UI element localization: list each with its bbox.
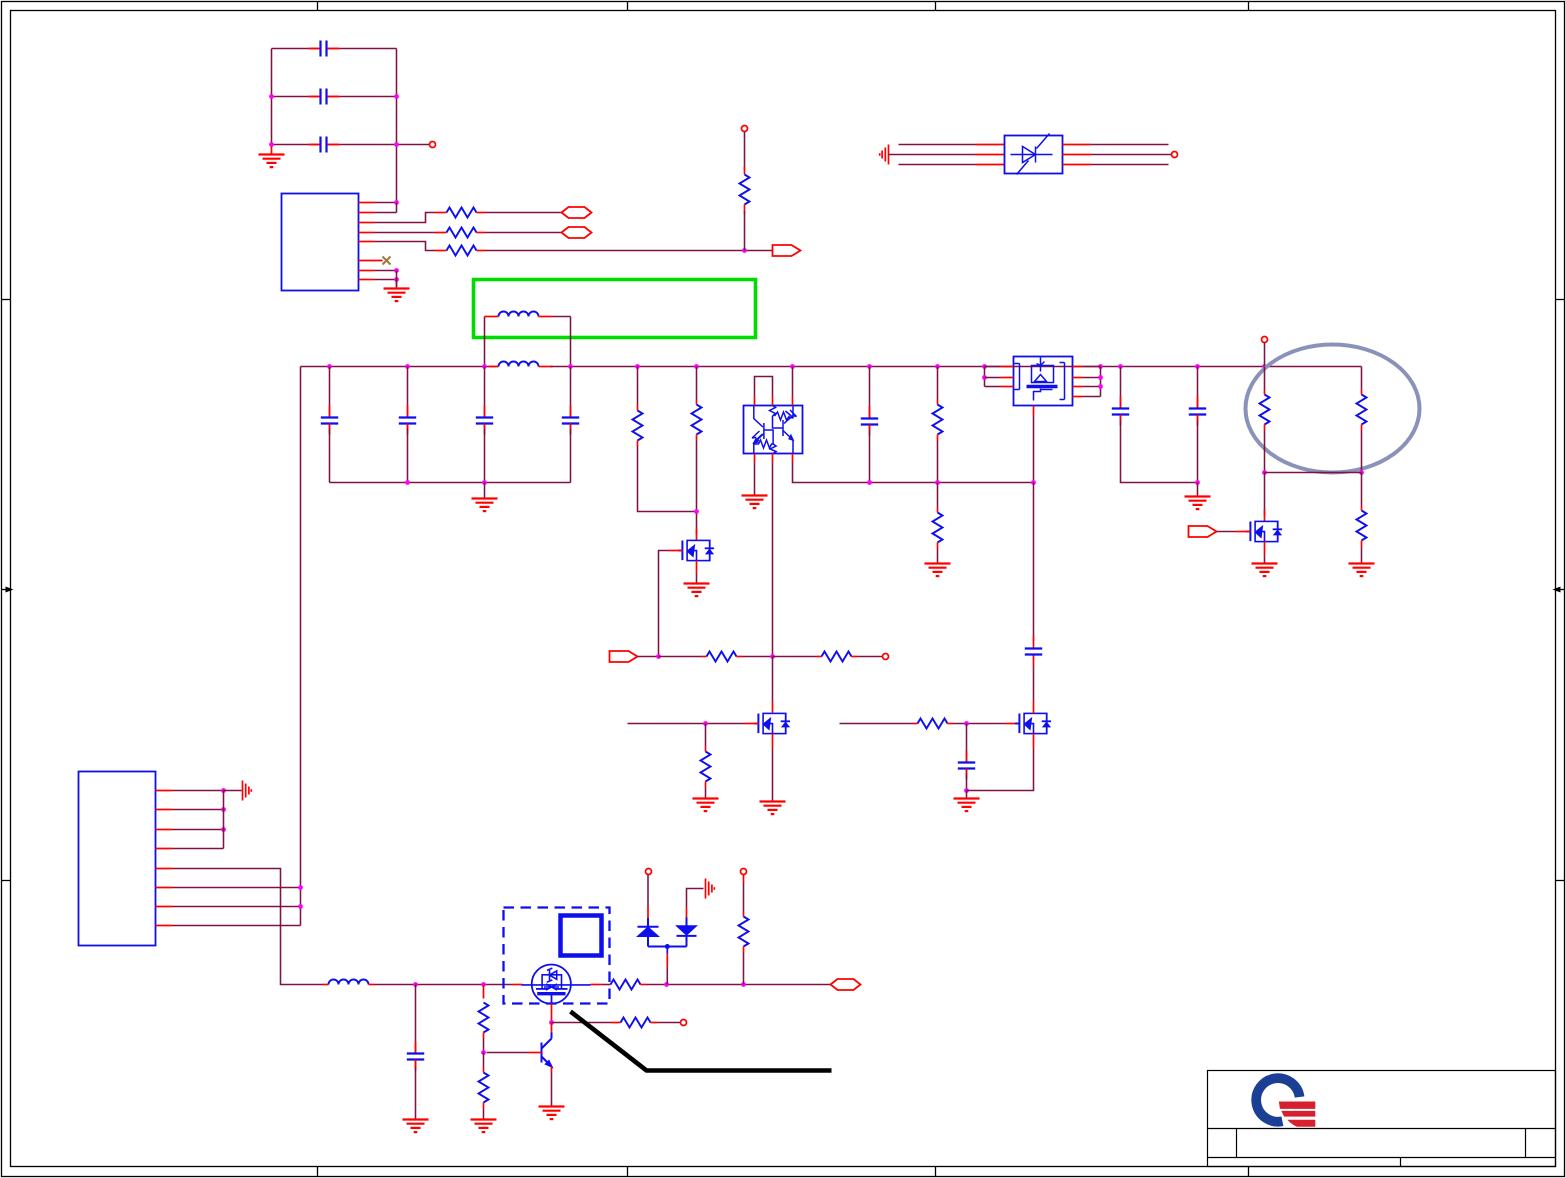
capacitor C10: [1197, 367, 1199, 405]
J1 pin 4: [156, 848, 173, 850]
capacitor C6: [484, 367, 486, 415]
triac U2 box: [1005, 136, 1063, 174]
right centre arrow: [1553, 587, 1565, 593]
resistor R5: [637, 367, 639, 406]
Q4 source to ground: [1264, 542, 1266, 556]
title block frame: [1208, 1071, 1556, 1167]
wire cap row 1: [272, 48, 312, 50]
ground R8: [925, 564, 951, 577]
resistor R18: [611, 980, 641, 990]
capacitor C4: [329, 367, 331, 415]
U3 internals: [752, 406, 797, 454]
wire cap row 2: [272, 96, 312, 98]
off-page connector hexagon 1: [562, 207, 592, 218]
diode D2: [648, 918, 697, 947]
capacitor C7: [570, 367, 572, 415]
off-page connector hexagon 2: [562, 227, 592, 238]
resistor R12: [707, 652, 737, 662]
capacitor C11: [1025, 637, 1042, 666]
circle mosfet M5: [532, 965, 571, 1004]
U1 pin 3: [359, 222, 375, 224]
left border ticks: [2, 299, 11, 301]
resistor R1: [435, 212, 447, 214]
wire connector to node: [638, 656, 659, 658]
mosfet Q2: [754, 713, 790, 733]
resistor R17: [483, 1053, 485, 1068]
U4 internal symbol: [1027, 358, 1058, 401]
blue ellipse annotation: [1246, 345, 1420, 473]
junction dots cap bank: [269, 94, 274, 99]
ground Q1: [684, 584, 710, 597]
Q1 gate wire: [669, 550, 683, 552]
U4 right pins: [1073, 366, 1083, 368]
wire opto leg to Q2: [772, 657, 774, 702]
ground R14: [693, 799, 719, 812]
wire to chassis ground: [224, 790, 242, 792]
capacitor C12 on Q3 gate: [966, 724, 968, 759]
optocoupler U3 box: [744, 406, 803, 454]
triac U2 symbol: [1011, 134, 1053, 175]
resistor R4: [740, 175, 750, 205]
resistor R10: [1361, 367, 1363, 390]
U1 pin 1: [359, 202, 375, 204]
U1 pin 7: [359, 270, 375, 272]
mosfet Q4: [1246, 521, 1282, 541]
ground C9 C10 rail: [1197, 483, 1199, 496]
Q4 gate connector arrow: [1189, 526, 1217, 537]
top border ticks: [317, 2, 319, 11]
U4 bottom pin wire: [1033, 406, 1035, 416]
Q3 gate wire: [840, 723, 913, 725]
J1 pin 6: [156, 887, 173, 889]
capacitor C8: [869, 367, 871, 416]
capacitor C5: [407, 367, 409, 415]
resistor R14 on Q2 gate: [705, 724, 707, 747]
wire triac right bottom: [1063, 164, 1091, 166]
terminal open circle source row: [681, 1020, 687, 1026]
chassis ground J1: [243, 781, 252, 801]
dual-fet block U4: [1014, 357, 1073, 406]
off-page connector arrow mid row: [610, 651, 638, 662]
ground R11: [1349, 564, 1375, 577]
resistor R9: [1264, 367, 1266, 390]
inductor L2 (on bus): [489, 366, 499, 368]
cap bottom rail: [330, 482, 571, 484]
U4 bracket pins: [1015, 363, 1065, 400]
resistor R19: [741, 869, 747, 875]
green highlight box: [474, 280, 756, 338]
wire down from terminal: [744, 132, 746, 170]
mosfet Q1: [696, 529, 698, 541]
resistor R8 below rail: [937, 483, 939, 508]
wire R6 down: [696, 441, 698, 535]
wire to BJT collector: [551, 1023, 553, 1033]
wire triac left bottom: [899, 164, 976, 166]
J1 pin 5: [156, 868, 173, 870]
dashed module box: [504, 908, 610, 1004]
left centre arrow: [2, 587, 14, 593]
black annotation polyline: [571, 1012, 832, 1071]
resistor R2: [435, 232, 447, 234]
capacitor C2: [309, 89, 339, 105]
M5 source down: [551, 1004, 553, 1023]
thick blue square: [561, 916, 602, 956]
ground Q2: [760, 802, 786, 815]
wire to connector 1: [486, 212, 562, 214]
wire C12 to Q3 source: [1033, 734, 1035, 749]
bus junction dots: [327, 364, 332, 369]
wire triac left top: [899, 144, 976, 146]
wire L1 right leg: [570, 317, 572, 367]
J1 pins 1-4 tie vertical: [223, 791, 225, 849]
main bus wire cont: [551, 366, 1362, 368]
Q2 source to ground: [772, 734, 774, 749]
terminal open circle top: [742, 126, 748, 132]
off-page connector arrow row y=250: [773, 245, 801, 256]
wire terminal to bus: [1264, 343, 1266, 367]
Q4 gate wire: [1217, 531, 1237, 533]
J1 pin 7: [156, 906, 173, 908]
ground U3: [742, 496, 768, 509]
Q1 source to ground: [696, 561, 698, 574]
U1 pin 8: [359, 279, 375, 281]
wire diodes to line: [666, 947, 668, 954]
wire R5 to junction: [638, 447, 697, 512]
main bus wire: [301, 366, 497, 368]
wire resistor to row: [744, 212, 746, 251]
resistor R15: [918, 719, 948, 729]
capacitor C9: [1120, 367, 1122, 405]
wire node to R12: [659, 656, 702, 658]
Q2 gate wire: [628, 723, 745, 725]
U3 bottom right pin to rail: [792, 454, 794, 463]
resistor R7: [937, 367, 939, 400]
Q5 emitter to ground: [551, 1067, 553, 1073]
bottom border ticks: [317, 1167, 319, 1177]
ground cap bank: [271, 147, 273, 154]
company logo: [1256, 1078, 1315, 1127]
capacitor C13: [415, 985, 417, 1045]
J1 pin 8: [156, 925, 173, 927]
wire source row right: [552, 1022, 611, 1024]
resistor R20: [621, 1018, 651, 1028]
ground U1: [384, 289, 410, 302]
wire to connector 2: [486, 232, 562, 234]
wire node to R13: [773, 656, 817, 658]
U3 bottom left pin to ground: [754, 454, 756, 463]
capacitor C1: [309, 41, 339, 57]
resistor R11: [1361, 473, 1363, 506]
Q3 drain from C11: [1033, 702, 1035, 714]
diode D1: [646, 869, 652, 875]
wire U4 down to C11: [1033, 483, 1035, 641]
transistor Q5: [542, 1033, 552, 1067]
chassis ground triac left: [880, 145, 889, 165]
resistor R13: [822, 652, 852, 662]
chassis ground diode: [706, 879, 715, 899]
connector J1: [79, 772, 156, 946]
mosfet Q3: [1015, 713, 1051, 733]
Q5 base wire: [529, 1052, 542, 1054]
wire R13 to terminal: [858, 656, 883, 658]
ground Q4: [1252, 564, 1278, 577]
terminal open circle above bus: [1262, 337, 1268, 343]
terminal open circle triac: [1172, 152, 1178, 158]
ground C13: [403, 1120, 429, 1133]
wire triac left mid: [889, 154, 976, 156]
wire L1 left leg: [484, 317, 486, 367]
IC U1: [282, 194, 359, 291]
wire triac right mid: [1063, 154, 1091, 156]
resistor R6: [696, 367, 698, 400]
terminal open circle row3: [430, 142, 436, 148]
wire pin7-8 to ground: [396, 271, 398, 287]
wire long row y=250: [486, 250, 745, 252]
J1 pin 3: [156, 829, 173, 831]
off-page connector hexagon bottom: [831, 979, 861, 990]
ground C12: [966, 791, 968, 798]
U1 pin 5: [359, 241, 375, 243]
U1 pin 2: [359, 212, 375, 214]
wire R9 down to Q4: [1264, 473, 1266, 516]
U1 pin 4: [359, 232, 375, 234]
ground Q5: [539, 1107, 565, 1120]
rail R9-R10: [1265, 472, 1362, 474]
wire cap row 3: [272, 144, 312, 146]
capacitor C3: [309, 137, 339, 153]
U3 bottom mid pin long wire: [772, 454, 774, 463]
resistor R16: [483, 985, 485, 999]
wire cap-bank left vertical: [271, 49, 273, 147]
ground R17: [471, 1120, 497, 1133]
ground cap rail: [484, 483, 486, 498]
wire R18 to hexagon: [647, 984, 831, 986]
U4 left pins tie: [984, 367, 986, 387]
wire triac right top: [1063, 144, 1091, 146]
right border ticks: [1556, 299, 1565, 301]
resistor R3: [435, 250, 447, 252]
wire cap-bank right vertical: [396, 49, 398, 203]
left long vertical from bus: [300, 367, 302, 926]
U3 top bridge wire pins 1-2: [754, 397, 756, 406]
inductor L3: [323, 984, 329, 986]
J1 pin 2: [156, 809, 173, 811]
terminal open circle mid row: [883, 654, 889, 660]
J1 pin 1: [156, 790, 173, 792]
wire R12 to node: [743, 656, 773, 658]
inductor L1 (in green box): [485, 316, 499, 318]
wire L3 to M5: [375, 984, 513, 986]
U1 pin 6 no-connect: [359, 260, 383, 262]
U3 top right pin to bus: [792, 397, 794, 406]
